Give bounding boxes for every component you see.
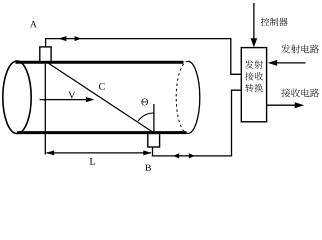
label fashe dianlu (transmit circuit): [281, 44, 290, 53]
angle arc theta: [138, 113, 154, 121]
pipe right end cap solid arc: [188, 61, 200, 133]
extent line above B (angle reference): [153, 104, 155, 131]
L dimension arrowheads: [46, 150, 54, 155]
controller arrow line: [253, 3, 255, 40]
transducer B: [148, 134, 160, 148]
velocity arrow V: [40, 99, 93, 101]
pipe left end cap ellipse: [3, 61, 31, 133]
label V: [68, 92, 75, 99]
converter box: [241, 48, 266, 122]
extent line below A: [44, 64, 46, 155]
receive circuit arrow line: [267, 104, 297, 106]
converter box text fa she: [245, 60, 254, 68]
pipe top wall: [16, 61, 184, 64]
converter box text jie shou: [245, 72, 254, 80]
dimension line L: [47, 152, 152, 154]
bottom wire double arrowheads: [173, 153, 179, 158]
label theta: [141, 99, 148, 106]
controller arrowhead: [251, 38, 258, 47]
label jieshou dianlu (receive circuit): [281, 88, 290, 97]
label B: [145, 165, 151, 171]
transmit circuit arrow line: [276, 62, 306, 64]
label A: [30, 21, 37, 27]
label C: [99, 83, 105, 90]
label kongzhiqi (controller): [261, 18, 270, 26]
receive arrowhead: [295, 102, 305, 108]
wire from transducer A to converter: [46, 39, 242, 75]
wire from transducer B to converter: [153, 90, 242, 156]
transducer A: [40, 47, 51, 62]
top wire double arrowheads: [58, 36, 66, 41]
label L: [90, 158, 95, 165]
converter box text zhuan huan: [245, 84, 253, 92]
pipe right end cap hidden dashed arc: [176, 61, 188, 133]
pipe bottom wall: [17, 131, 187, 134]
V arrowhead: [86, 97, 95, 102]
sound path C diagonal: [49, 63, 153, 132]
transmit arrowhead: [268, 60, 278, 66]
